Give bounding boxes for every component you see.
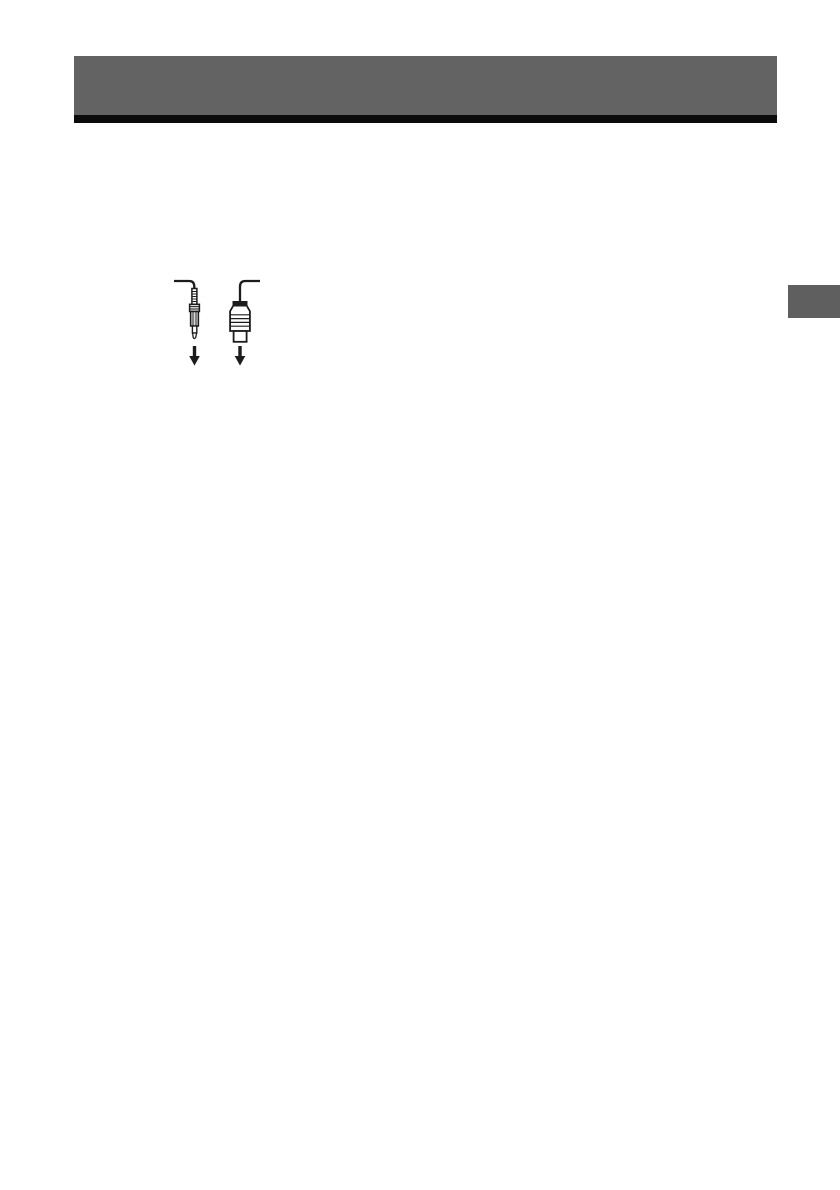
audio minijack plug bbox=[190, 289, 200, 339]
audio minijack cable bbox=[174, 281, 194, 289]
header black rule bbox=[74, 115, 777, 123]
header gray band bbox=[74, 56, 777, 115]
hdmi cable (top) bbox=[240, 281, 260, 302]
hdmi plug (top) bbox=[230, 302, 250, 342]
page edge tab bbox=[788, 285, 840, 318]
down arrow to audio out bbox=[189, 346, 200, 366]
down arrow to hdmi in 1 bbox=[235, 346, 246, 366]
